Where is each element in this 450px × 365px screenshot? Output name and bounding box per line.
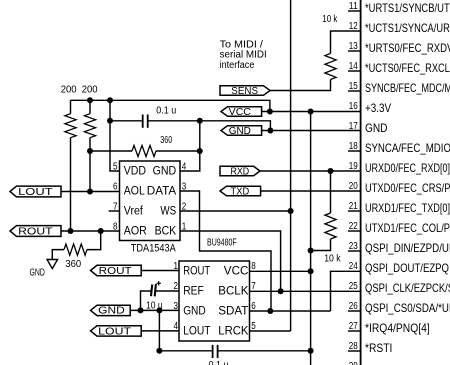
tag RXD (220, 166, 260, 177)
IC U2 pin 16 name +3.3V (365, 101, 391, 115)
wire GND to IC pin 17 (262, 130, 361, 132)
IC U2 pin 11 name *URTS1/SYNCB/UTX (365, 1, 450, 15)
IC U2 pin 13 name *URTS0/FEC_RXDV/ (365, 41, 450, 55)
svg-text:15: 15 (349, 81, 358, 92)
svg-text:5: 5 (113, 162, 118, 173)
wire bottom cap right lead (218, 350, 310, 352)
svg-text:SDAT: SDAT (218, 305, 248, 317)
U1 label WS (160, 206, 176, 218)
tag LOUT upper (10, 186, 61, 198)
wire GND branch down (158, 310, 160, 350)
svg-text:QSPI_DIN/EZPD/UR: QSPI_DIN/EZPD/UR (365, 241, 450, 255)
IC U2 pin 24 name QSPI_DOUT/EZPQ (365, 261, 449, 275)
label C1 value 0.1 u (156, 106, 176, 117)
node junction GND tag drop (267, 128, 273, 134)
svg-text:LOUT: LOUT (98, 326, 131, 337)
IC U2 pin 27 name *IRQ4/PNQ[4] (365, 321, 430, 335)
svg-text:URXD0/FEC_RXD[0]: URXD0/FEC_RXD[0] (365, 161, 450, 175)
node junction BCK at BCLK wire (278, 288, 284, 294)
IC U2 pin 22 name UTXD1/FEC_COL/P (365, 221, 450, 235)
resistor R6 10k (311, 171, 337, 251)
U3 pin 4 number (174, 321, 179, 332)
wire RXD to IC pin 19 (260, 170, 361, 172)
svg-text:7: 7 (251, 281, 256, 292)
wire LRCK horizontal to vertical (250, 330, 291, 332)
IC U2 pin 12 name *UCTS1/SYNCA/URX (365, 21, 450, 35)
IC U2 (microcontroller) body edge (360, 0, 362, 365)
IC U2 pin 14 stub and number (348, 61, 361, 72)
label R3 value 360 (160, 135, 172, 146)
wire +3.3V top rail to VCC tag (71, 100, 270, 111)
U1 pin 1 number (182, 222, 187, 233)
svg-text:ROUT: ROUT (18, 227, 53, 238)
svg-text:GND: GND (229, 126, 251, 137)
IC U2 pin 15 stub and number (348, 81, 361, 92)
IC U2 pin 25 stub and number (349, 281, 358, 292)
svg-text:*IRQ4/PNQ[4]: *IRQ4/PNQ[4] (365, 321, 430, 335)
IC U2 pin 12 stub and number (349, 21, 358, 32)
U1 pin 7 Vref stub (109, 210, 120, 212)
wire cap C1 right lead to GND tag drop (149, 121, 271, 131)
svg-text:27: 27 (349, 321, 358, 332)
node junction R3 right at GND vertical (197, 148, 203, 154)
tag ROUT lower (91, 265, 142, 277)
svg-text:WS: WS (160, 206, 176, 218)
svg-text:10 k: 10 k (322, 14, 338, 25)
ground symbol (47, 260, 58, 269)
svg-text:23: 23 (349, 241, 358, 252)
svg-text:TDA1543A: TDA1543A (131, 243, 177, 255)
node junction RXD at 10k R6 (328, 168, 334, 174)
node junction VCC rail drop (267, 109, 273, 115)
label R5 value 10 k (322, 14, 338, 25)
node junction rail to cap branch (107, 97, 113, 103)
wire GND to U3 pin3 (130, 309, 179, 311)
svg-text:LRCK: LRCK (218, 325, 248, 337)
svg-text:24: 24 (349, 261, 358, 272)
svg-text:14: 14 (349, 61, 358, 72)
node junction VCC at +3.3V vertical (308, 109, 314, 115)
tag SENS (220, 86, 270, 97)
svg-text:*URTS0/FEC_RXDV/: *URTS0/FEC_RXDV/ (365, 41, 450, 55)
IC U2 pin 21 stub and number (348, 201, 361, 212)
svg-text:+3.3V: +3.3V (365, 101, 391, 115)
IC U2 pin 17 name GND (365, 121, 388, 135)
U1 pin 3 number (182, 182, 187, 193)
U1 pin 4 number (182, 162, 187, 173)
IC U2 pin 26 stub and number (348, 301, 361, 312)
wire LOUT to U3 pin4 (141, 330, 179, 332)
note To MIDI / serial MIDI interface (220, 39, 267, 71)
node junction cap wire left (107, 118, 113, 124)
U3 label ROUT (183, 266, 210, 278)
node junction cap wire to GND vertical (197, 118, 203, 124)
IC U2 pin 20 stub and number (349, 181, 358, 192)
tag GND upper (221, 126, 262, 137)
svg-text:QSPI_CS0/SDA/*UR: QSPI_CS0/SDA/*UR (365, 301, 450, 315)
wire TXD to IC pin 20 (261, 190, 361, 192)
tag TXD (220, 186, 261, 197)
IC U2 pin 19 stub and number (349, 161, 358, 172)
wire C2 to U3 REF pin2 (156, 290, 179, 292)
svg-text:LOUT: LOUT (183, 325, 210, 337)
resistor R4 360 (52, 231, 100, 260)
U1 label GND (153, 166, 177, 178)
label U3 BU9480F (207, 237, 237, 248)
IC U2 pin 11 stub and number (348, 1, 361, 12)
capacitor C3 0.1u plates (213, 345, 218, 358)
svg-text:*RSTI: *RSTI (365, 341, 392, 355)
svg-text:DATA: DATA (147, 186, 177, 198)
svg-text:16: 16 (349, 101, 358, 112)
label R4 value 360 (65, 259, 81, 270)
U1 pin 5 number (113, 162, 118, 173)
U3 label BCLK (218, 286, 248, 298)
svg-text:22: 22 (349, 221, 358, 232)
IC U2 pin 23 stub and number (348, 241, 361, 252)
resistor R3 360 (90, 145, 200, 156)
IC U2 pin 17 stub and number (349, 121, 358, 132)
svg-text:LOUT: LOUT (18, 187, 53, 198)
svg-text:5: 5 (251, 321, 256, 332)
U1 label Vref (124, 206, 144, 218)
svg-text:4: 4 (182, 162, 187, 173)
IC U2 pin 29 number (clipped) (349, 361, 358, 365)
node junction R3 left at R2 (87, 148, 93, 154)
svg-text:21: 21 (349, 201, 358, 212)
wire branch x=110 to VDD pin5 (110, 100, 120, 171)
svg-text:GND: GND (365, 121, 388, 135)
IC U2 pin 13 stub and number (348, 41, 361, 52)
U3 pin 5 number (251, 321, 256, 332)
IC U2 pin 14 name *UCTS0/FEC_RXCLK (365, 61, 450, 75)
label C3 value 0.1 u (clipped) (209, 360, 229, 365)
svg-text:GND: GND (183, 305, 206, 317)
svg-text:25: 25 (349, 281, 358, 292)
label ground GND (30, 267, 45, 278)
U3 label GND (183, 305, 206, 317)
IC U2 pin 28 name *RSTI (365, 341, 392, 355)
svg-text:0.1 u: 0.1 u (209, 360, 229, 365)
wire U3 BCLK pin7 to IC pin25 (250, 290, 361, 292)
svg-text:*URTS1/SYNCB/UTX: *URTS1/SYNCB/UTX (365, 1, 450, 15)
svg-text:UTXD0/FEC_CRS/PA: UTXD0/FEC_CRS/PA (365, 181, 450, 195)
svg-text:VCC: VCC (224, 266, 249, 278)
label U1 TDA1543A (131, 243, 177, 255)
node junction LOUT at R2 (87, 189, 93, 195)
node junction ROUT at R4 (98, 228, 104, 234)
svg-text:QSPI_DOUT/EZPQ: QSPI_DOUT/EZPQ (365, 261, 449, 275)
wire U1 BCK to BCLK net (180, 231, 281, 291)
wire vertical net (WS/LRCK) x=290 (290, 0, 292, 331)
svg-text:200: 200 (61, 84, 77, 95)
wire vertical +3.3V rail x=310.6 (310, 112, 312, 365)
wire LOUT to U1 AOL (61, 191, 120, 193)
U1 label AOL (124, 186, 146, 198)
svg-text:QSPI_CLK/EZPCK/S: QSPI_CLK/EZPCK/S (365, 281, 450, 295)
svg-text:SENS: SENS (231, 86, 258, 97)
svg-text:BU9480F: BU9480F (207, 237, 237, 248)
resistor R1 200 (65, 100, 76, 231)
U3 pin 6 number (251, 301, 256, 312)
resistor R5 10k (325, 53, 336, 79)
wire cap C1 left lead (110, 120, 142, 122)
svg-text:BCLK: BCLK (218, 286, 248, 298)
svg-text:18: 18 (349, 141, 358, 152)
svg-text:Vref: Vref (124, 206, 144, 218)
tag VCC (221, 107, 262, 118)
label R1 value 200 (61, 84, 77, 95)
svg-text:0.1 u: 0.1 u (156, 106, 176, 117)
tag GND lower (91, 305, 131, 316)
wire IC pin24 to SDAT net (331, 271, 361, 311)
resistor R2 200 (84, 100, 95, 191)
U1 pin 6 number (113, 182, 118, 193)
label R6 value 10 k (324, 254, 341, 265)
svg-text:VDD: VDD (124, 166, 146, 178)
wire U1 DATA to SDAT net (180, 191, 271, 311)
U1 pin 7 number (113, 202, 118, 213)
IC U2 pin 22 stub and number (348, 221, 361, 232)
IC U2 pin 21 name URXD1/FEC_TXD[0] (365, 201, 450, 215)
svg-text:26: 26 (349, 301, 358, 312)
svg-text:360: 360 (65, 259, 81, 270)
node junction ROUT at R1 (68, 228, 74, 234)
svg-text:360: 360 (160, 135, 172, 146)
svg-text:29: 29 (349, 361, 358, 365)
node junction SDAT at DATA wire (267, 308, 273, 314)
svg-text:10 k: 10 k (324, 254, 341, 265)
capacitor C1 0.1u plates (143, 115, 148, 128)
wire ROUT to U3 pin1 (141, 270, 179, 272)
svg-text:SYNCB/FEC_MDC/M: SYNCB/FEC_MDC/M (365, 81, 450, 95)
svg-text:GND: GND (98, 306, 125, 317)
wire GND vertical to TDA pin4 (180, 121, 200, 171)
U3 label LRCK (218, 325, 248, 337)
node junction GND at C2 (138, 307, 144, 313)
svg-text:BCK: BCK (155, 226, 177, 238)
svg-text:GND: GND (153, 166, 177, 178)
U1 label DATA (147, 186, 177, 198)
U3 label VCC (224, 266, 249, 278)
U3 pin 3 number (174, 301, 179, 312)
label R2 value 200 (82, 84, 98, 95)
IC U2 pin 28 stub and number (348, 341, 361, 352)
IC U2 pin 15 name SYNCB/FEC_MDC/M (365, 81, 450, 95)
U1 pin 8 number (113, 222, 118, 233)
svg-text:11: 11 (349, 1, 358, 12)
op-amp/DAC U1 TDA1543A box (120, 161, 181, 241)
wire U3 SDAT pin6 (250, 310, 331, 312)
U3 pin 1 number (174, 261, 179, 272)
node junction bottom wire left (156, 348, 162, 354)
capacitor C2 10u plates (151, 284, 156, 296)
svg-text:serial MIDI: serial MIDI (220, 50, 267, 61)
IC U2 pin 20 name UTXD0/FEC_CRS/PA (365, 181, 450, 195)
IC U2 pin 26 name QSPI_CS0/SDA/*UR (365, 301, 450, 315)
node junction WS at x290 (288, 208, 294, 214)
U3 pin 7 number (251, 281, 256, 292)
IC U2 pin 18 stub and number (348, 141, 361, 152)
svg-text:AOR: AOR (124, 226, 147, 238)
node junction U3 VCC at +3.3V vertical (308, 268, 314, 274)
svg-text:28: 28 (349, 341, 358, 352)
IC U2 pin 25 name QSPI_CLK/EZPCK/S (365, 281, 450, 295)
U1 label BCK (155, 226, 177, 238)
U3 pin 8 number (251, 261, 256, 272)
tag LOUT lower (91, 326, 142, 338)
DAC U3 BU9480F box (179, 261, 250, 341)
svg-text:*UCTS0/FEC_RXCLK: *UCTS0/FEC_RXCLK (365, 61, 450, 75)
wire C2 negative to GND wire (141, 291, 151, 310)
node junction GND at bottom branch (156, 307, 162, 313)
wire VCC to IC pin 16 (262, 111, 361, 113)
wire R5 top to IC pin 12 (331, 31, 361, 53)
svg-text:ROUT: ROUT (99, 266, 132, 277)
svg-text:6: 6 (251, 301, 256, 312)
U1 label AOR (124, 226, 147, 238)
IC U2 pin 19 name URXD0/FEC_RXD[0] (365, 161, 450, 175)
svg-text:*UCTS1/SYNCA/URX: *UCTS1/SYNCA/URX (365, 21, 450, 35)
IC U2 pin 18 name SYNCA/FEC_MDIO (365, 141, 450, 155)
svg-text:AOL: AOL (124, 186, 146, 198)
svg-text:TXD: TXD (231, 187, 250, 198)
svg-text:SYNCA/FEC_MDIO: SYNCA/FEC_MDIO (365, 141, 450, 155)
svg-text:REF: REF (183, 286, 204, 298)
wire U3 VCC pin8 to +3.3V vertical (250, 270, 311, 272)
wire U1 WS to vertical x290 (180, 210, 291, 212)
svg-text:200: 200 (82, 84, 98, 95)
tag ROUT upper (10, 226, 61, 238)
IC U2 pin 27 stub and number (348, 321, 361, 332)
U3 label REF (183, 286, 204, 298)
wire SENS to 10k R5 (270, 80, 331, 91)
node junction R2 top (87, 97, 93, 103)
svg-text:8: 8 (251, 261, 256, 272)
U3 label SDAT (218, 305, 248, 317)
IC U2 pin 16 stub and number (349, 101, 358, 112)
svg-text:13: 13 (349, 41, 358, 52)
U3 pin 2 number (174, 281, 179, 292)
IC U2 pin 23 name QSPI_DIN/EZPD/UR (365, 241, 450, 255)
svg-text:VCC: VCC (229, 107, 251, 118)
label C2 plus sign (157, 281, 161, 285)
svg-text:URXD1/FEC_TXD[0]: URXD1/FEC_TXD[0] (365, 201, 450, 215)
wire ROUT to U1 AOR (61, 230, 120, 232)
U1 label VDD (124, 166, 146, 178)
node junction R6 at +3.3V vertical (308, 248, 314, 254)
svg-text:ROUT: ROUT (183, 266, 210, 278)
IC U2 pin 24 stub and number (349, 261, 358, 272)
svg-text:interface: interface (220, 60, 255, 71)
wire bottom cap left lead (159, 350, 211, 352)
U3 label LOUT (183, 325, 210, 337)
svg-text:RXD: RXD (231, 167, 250, 178)
node junction bottom wire at +3.3V vertical (308, 348, 314, 354)
U1 pin 2 number (182, 202, 187, 213)
svg-text:GND: GND (30, 267, 45, 278)
label C2 value 10 u (146, 300, 163, 311)
svg-text:UTXD1/FEC_COL/P: UTXD1/FEC_COL/P (365, 221, 450, 235)
